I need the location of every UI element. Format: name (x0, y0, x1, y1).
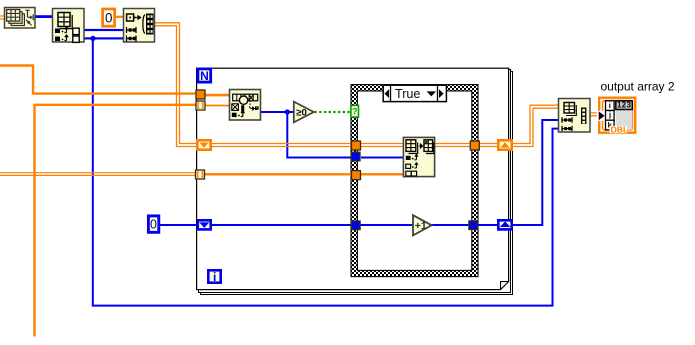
wire: orange scalar B vertical from bottom into loop index tunnel (35, 105, 197, 337)
wire: orange array subset output to indicator (590, 113, 599, 116)
for loop front border (196, 68, 509, 291)
svg-text:True: True (395, 87, 420, 101)
wire: blue search output to greater-equal and down to case index tunnel (261, 112, 352, 158)
svg-text:≥0: ≥0 (296, 108, 307, 119)
tunnel: orange scalar into loop (196, 90, 205, 99)
wire: orange array case tunnel to replace node (360, 144, 404, 147)
node search 1D array U4 (230, 90, 261, 121)
svg-text:i: i (213, 270, 216, 284)
wire: case tunnel to blue shift reg (477, 224, 498, 226)
svg-text:DBL: DBL (611, 124, 629, 134)
tunnel: case left orange array (352, 141, 361, 150)
svg-text:j: j (608, 110, 611, 119)
node array subset U6 (559, 99, 591, 133)
wire: green boolean dotted to case selector (315, 111, 352, 113)
svg-text:0: 0 (150, 218, 157, 232)
tunnel: case right orange array out (470, 141, 479, 150)
tunnel: case left blue index (351, 152, 360, 161)
indicator output array 2 (597, 98, 635, 135)
junction on node2 out2 (90, 36, 95, 41)
wire: blue node1 to node2 (size array) (33, 15, 53, 18)
case selector label True (383, 85, 446, 101)
shift register left blue (198, 220, 211, 229)
wire: blue node2 out1 to node3 dim0 (84, 29, 123, 31)
shift register right orange (498, 140, 511, 149)
node increment +1 (413, 215, 432, 235)
wire: orange 2D array stub into node1 (0, 16, 5, 19)
wire: orange array right SR up to array subset input (512, 105, 558, 146)
svg-text:123: 123 (617, 101, 632, 110)
wire: blue shift reg through case +1 to right shift reg (211, 224, 353, 226)
node initialize array U3 (124, 9, 155, 43)
i iteration terminal (208, 270, 220, 284)
shift register left orange (197, 140, 210, 149)
tunnel: orange indexing into loop (element) (196, 170, 205, 179)
wire: case in to +1 (360, 224, 413, 226)
node array size U1 (5, 8, 36, 29)
case structure hatched border (351, 85, 478, 277)
shift register right blue (498, 220, 511, 229)
tunnel: case right blue out (469, 221, 478, 230)
wire: orange 1D array from left edge y174 to loop tunnel (0, 173, 197, 176)
case selector terminal ? (351, 105, 359, 117)
constant 0 I32 (148, 216, 158, 232)
tunnel: orange indexing into loop (top) (196, 101, 205, 110)
comparison greater or equal to 0 (294, 102, 314, 123)
wire: orange scalar A from left edge into loop tunnel (0, 66, 197, 94)
svg-text:output array 2: output array 2 (601, 80, 675, 94)
wire: blue node2 out2 to node3 dim1 (84, 37, 123, 39)
node replace array subset U5 (403, 137, 434, 176)
wire: +1 out to case tunnel (431, 224, 469, 226)
svg-text:N: N (200, 69, 209, 83)
wire: orange element inside loop to case tunnel (203, 173, 353, 175)
wire: blue 0 constant to left blue shift register (159, 224, 198, 226)
svg-text:+1: +1 (415, 220, 427, 232)
wire: orange array left SR to case tunnel (211, 144, 353, 147)
wire: blue index inside case to replace node (361, 157, 403, 159)
for loop N=3 stacked page 3 (200, 71, 513, 295)
constant 0 DBL (103, 9, 115, 26)
for loop stacked page 2 (198, 69, 511, 293)
wire: blue shift reg out up to array subset index input (513, 120, 558, 225)
wire: orange thin to search lower input (204, 105, 230, 107)
wire: orange tunnel to search array input (204, 94, 230, 97)
wire: orange array case tunnel to right shift register (479, 144, 498, 147)
node index array U2 (53, 9, 85, 43)
wire: orange element inside case to replace node (361, 173, 404, 175)
wire: blue from node2 lower output down and along bottom to array subset length input (93, 38, 558, 305)
N count terminal (198, 69, 211, 83)
tunnel: case left orange element (352, 171, 361, 180)
wire: orange array from initialize array down to left shift register (154, 23, 197, 147)
svg-text:i: i (609, 101, 611, 110)
tunnel: case left blue iterate (352, 221, 361, 230)
svg-text:0: 0 (105, 11, 113, 26)
svg-text:?: ? (352, 106, 358, 116)
wire: orange array replace node to right case tunnel (434, 144, 472, 147)
junction on search output (285, 109, 290, 114)
wire: orange 0 constant to initialize array (114, 16, 124, 18)
